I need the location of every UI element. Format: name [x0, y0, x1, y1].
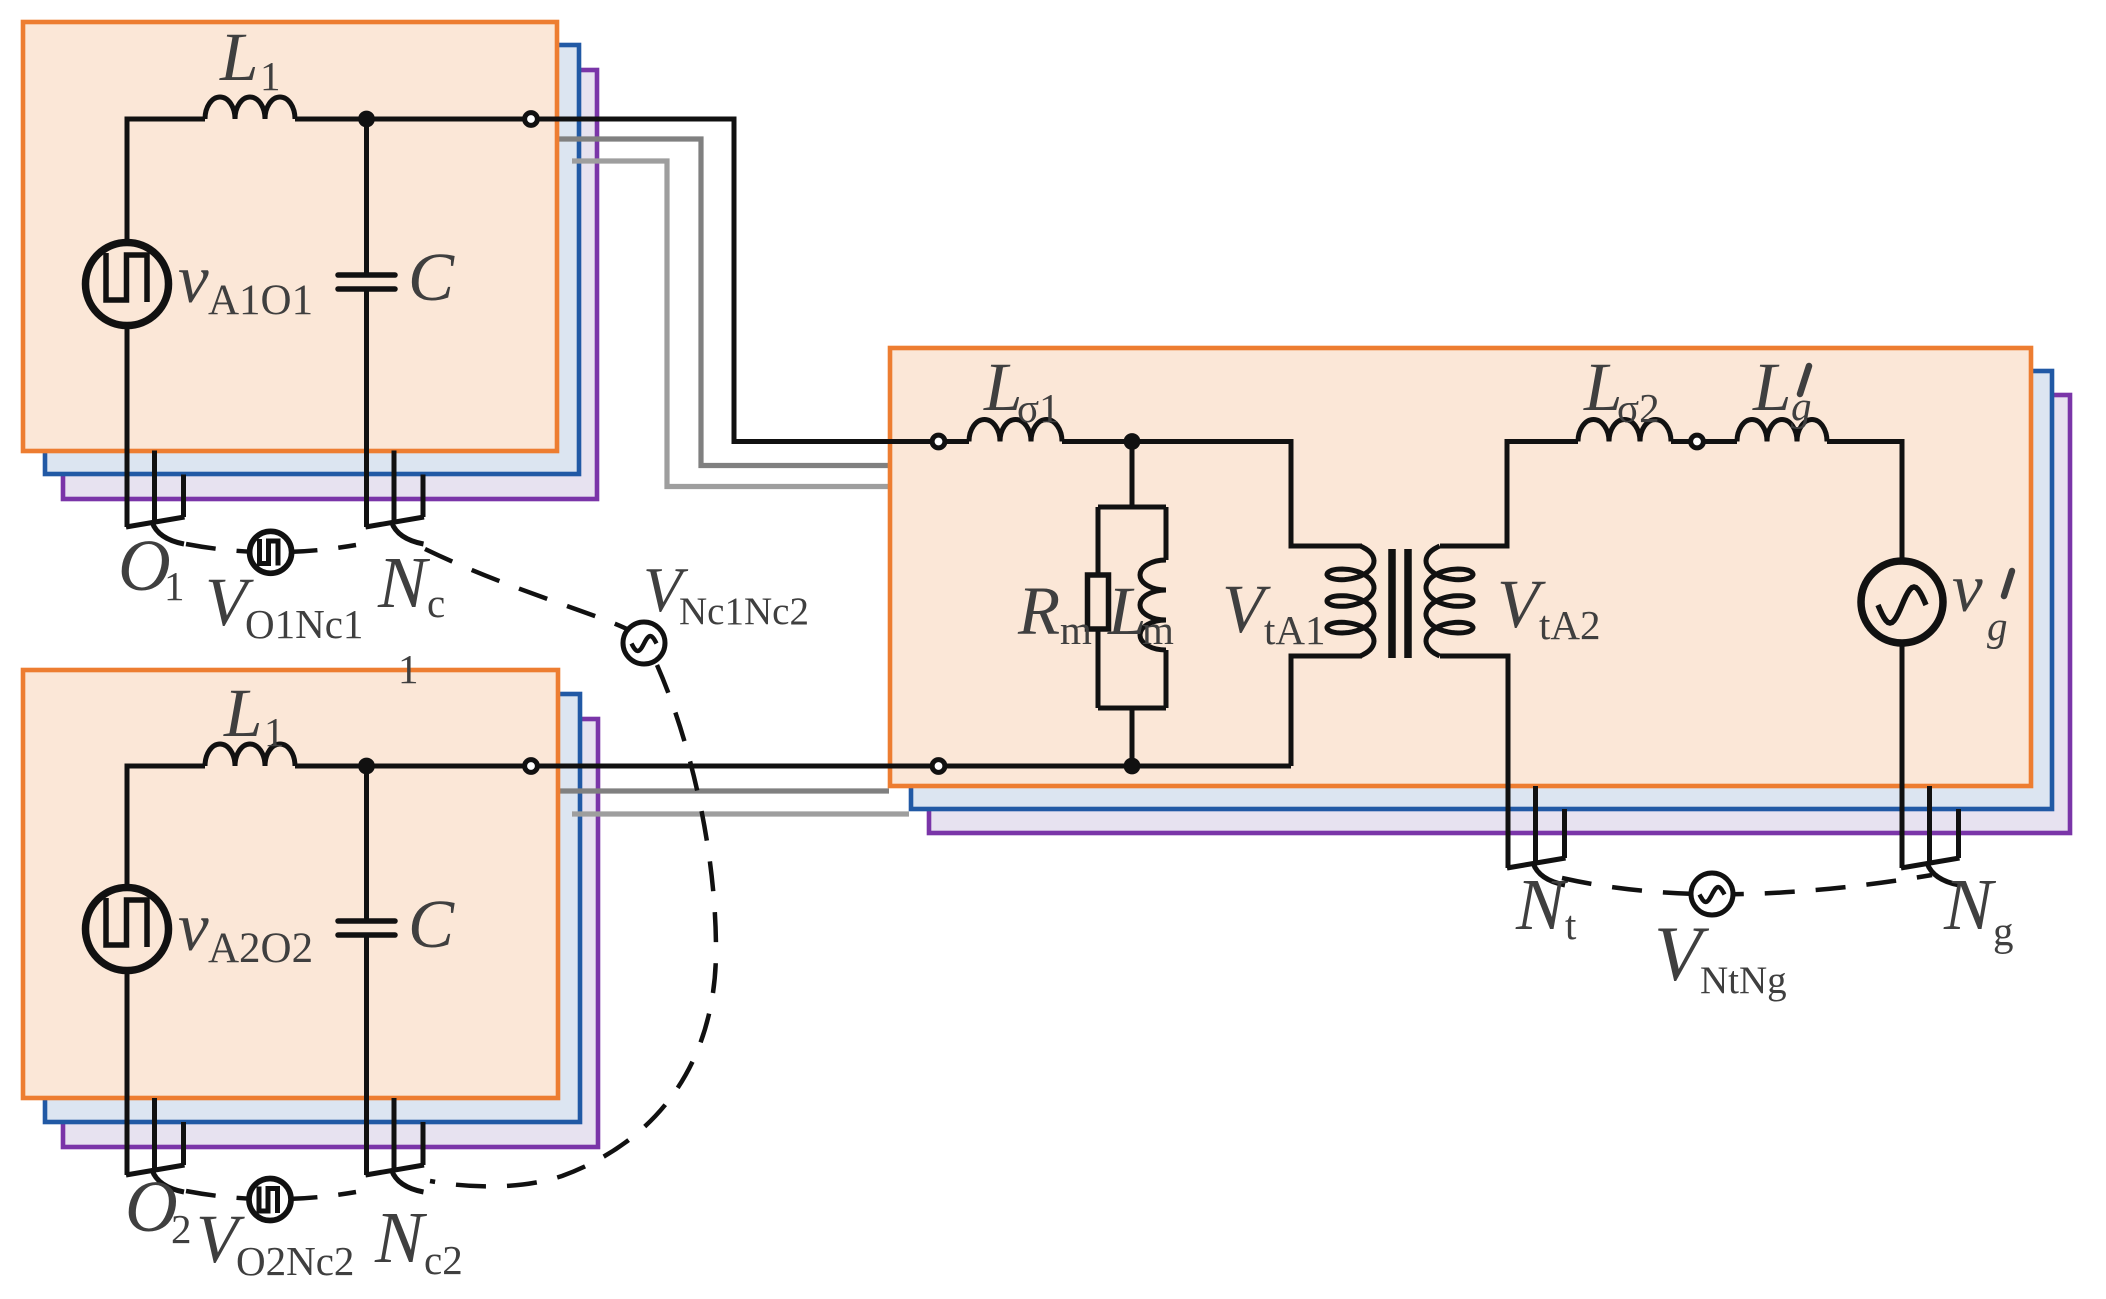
svg-text:g: g [1987, 603, 2008, 649]
node open terminal A2 (cell 2) [525, 760, 538, 773]
svg-text:O: O [125, 1166, 178, 1247]
inductor L1 (cell 1) [205, 97, 295, 119]
svg-text:c2: c2 [424, 1237, 463, 1283]
wire Rm/Lm block top bar [1098, 505, 1166, 510]
svg-text:L: L [223, 675, 262, 751]
wire gray B1 bundle (blue layer, bottom) [552, 788, 889, 793]
svg-text:O: O [118, 525, 171, 606]
cell 2 purple layer box [63, 719, 598, 1147]
transformer secondary winding VtA2 [1426, 546, 1473, 656]
node open terminal cell3 top-left [932, 435, 945, 448]
inductor Lm [1140, 560, 1166, 650]
node junction dot A1 (cell 1) [358, 111, 375, 128]
transformer core bars [1388, 549, 1396, 658]
wire transformer secondary top to Lsigma2 [1440, 442, 1578, 547]
source vA2O2 circle (square-wave source) [86, 888, 169, 971]
wire Lsigma1 to junction to transformer corner [1062, 442, 1362, 547]
wire transformer secondary bottom to Nt break [1440, 656, 1508, 868]
svg-text:1: 1 [260, 53, 281, 99]
dashed link Nc1 to Nc2 (long curve) [425, 549, 716, 1186]
wire Lsigma2 to open node [1671, 439, 1697, 444]
wire cell2 left vertical + top rail to L1 [127, 766, 205, 885]
wire junction down to Rm/Lm block [1130, 442, 1135, 508]
wire Rm left branch upper [1096, 507, 1101, 575]
source vg-prime circle (sine source) [1861, 561, 1943, 643]
svg-text:O1Nc1: O1Nc1 [245, 601, 363, 647]
wire bottom rail (cell 3) [945, 764, 1291, 769]
wire capacitor bottom to Nc2 break [364, 935, 369, 1175]
node O2 wire break mark [152, 1098, 157, 1172]
svg-text:c: c [427, 580, 445, 626]
wire gray B2 bundle (purple layer, bottom) [572, 811, 909, 816]
node junction dot (magnetizing branch bottom) [1124, 758, 1141, 775]
wire open node to Lg [1704, 439, 1737, 444]
inductor Lg-prime [1737, 420, 1827, 442]
svg-text:v: v [1952, 550, 1983, 626]
source vA2O2 square-wave glyph [106, 898, 147, 947]
wire gray A1 bundle (blue layer, top) [552, 139, 889, 466]
cell 2 blue layer box [45, 694, 580, 1122]
wire capacitor bottom to Nc1 break [364, 289, 369, 527]
svg-text:R: R [1017, 573, 1060, 649]
wire transformer primary bottom to rail [1291, 656, 1362, 766]
svg-text:L: L [1752, 349, 1791, 425]
svg-text:L: L [219, 19, 258, 95]
cell 1 orange box [23, 22, 557, 451]
node junction dot (magnetizing branch top) [1124, 433, 1141, 450]
svg-text:L: L [1107, 573, 1146, 649]
svg-text:1: 1 [398, 646, 419, 692]
node open terminal cell3 bottom-left [932, 760, 945, 773]
svg-text:2: 2 [171, 1206, 192, 1252]
source V_O2Nc2 square-wave glyph [259, 1187, 278, 1214]
wire A1 to transformer cell input (top bundle black) [537, 119, 930, 442]
wire source bottom to O2 break [125, 970, 130, 1176]
node Nc2 wire break mark [392, 1098, 397, 1172]
wire terminal to Lsigma1 [945, 439, 969, 444]
svg-text:Nc1Nc2: Nc1Nc2 [679, 590, 809, 633]
svg-text:N: N [374, 1197, 428, 1278]
cell 3 orange box [890, 348, 2031, 786]
inductor L1 (cell 2) [205, 744, 295, 766]
node junction dot A2 (cell 2) [358, 758, 375, 775]
svg-text:g: g [1993, 908, 2014, 954]
node Nt wire break mark [1533, 786, 1538, 865]
wire L1 to node (cell 2) [295, 764, 531, 769]
inductor Lsigma1 [969, 420, 1062, 442]
source V_O1Nc1 circle [250, 531, 292, 573]
cell 1 blue layer box [45, 45, 579, 474]
wire node to capacitor C (cell 1) [364, 119, 369, 275]
wire source bottom to O1 break [125, 325, 130, 528]
svg-text:N: N [1943, 864, 1997, 945]
svg-text:N: N [1515, 864, 1569, 945]
svg-text:A2O2: A2O2 [208, 925, 313, 972]
svg-text:1: 1 [264, 709, 285, 755]
capacitor C (cell 2) plates [338, 918, 395, 924]
svg-text:NtNg: NtNg [1700, 959, 1787, 1002]
svg-text:v: v [178, 889, 209, 965]
dashed link O1 to Nc1 [186, 544, 356, 552]
cell 3 blue layer box [911, 371, 2052, 809]
wire Lg to source vg top [1827, 442, 1902, 561]
svg-text:σ1: σ1 [1017, 385, 1060, 431]
wire Rm/Lm block bottom bar [1098, 706, 1166, 711]
svg-text:O2Nc2: O2Nc2 [236, 1238, 354, 1284]
node open terminal A1 (cell 1) [525, 113, 538, 126]
source vA1O1 circle (square-wave source) [86, 243, 169, 326]
wire source vg bottom to Ng break [1900, 644, 1905, 868]
label Lg prime tick [1800, 366, 1809, 394]
wire Lm right branch upper [1164, 507, 1169, 560]
dashed link Nt to Ng [1562, 875, 1932, 894]
svg-text:σ2: σ2 [1617, 385, 1660, 431]
cell 1 purple layer box [63, 70, 597, 499]
node Nc1 wire break mark [392, 451, 397, 525]
wire gray A2 bundle (purple layer, top) [572, 161, 889, 487]
source V_O2Nc2 circle [249, 1179, 291, 1221]
node Ng wire break mark [1927, 786, 1932, 865]
svg-text:m: m [1142, 607, 1174, 653]
svg-text:v: v [178, 241, 209, 317]
resistor Rm [1088, 575, 1109, 629]
source V_Nc1Nc2 circle (sine) [623, 622, 665, 664]
svg-text:tA2: tA2 [1539, 602, 1601, 648]
svg-text:m: m [1060, 607, 1092, 653]
transformer primary winding VtA1 [1327, 546, 1374, 656]
source vg-prime sine glyph [1878, 587, 1926, 623]
svg-text:A1O1: A1O1 [208, 277, 313, 324]
label vg prime tick [2004, 571, 2012, 596]
wire node to capacitor C (cell 2) [364, 766, 369, 921]
wire L1 to node (cell 1) [295, 117, 531, 122]
svg-text:1: 1 [164, 563, 185, 609]
inductor Lsigma2 [1578, 420, 1671, 442]
dashed link O2 to Nc2 [186, 1191, 356, 1199]
wire Lm right branch lower [1164, 650, 1169, 708]
svg-text:C: C [408, 239, 455, 315]
source V_O1Nc1 square-wave glyph [260, 539, 279, 566]
svg-text:C: C [408, 886, 455, 962]
cell 2 orange box [23, 670, 558, 1098]
wire cell1 left vertical + top rail to L1 [127, 119, 205, 240]
node open terminal between Lsigma2 and Lg [1691, 435, 1704, 448]
source V_NtNg sine glyph [1700, 887, 1725, 902]
cell 3 purple layer box [929, 395, 2070, 833]
capacitor C (cell 1) plates [338, 272, 395, 278]
svg-text:t: t [1565, 902, 1577, 948]
wire Rm/Lm block to bottom rail [1130, 708, 1135, 766]
source V_NtNg circle (sine) [1691, 873, 1733, 915]
wire A2 to transformer cell bottom rail (black) [537, 764, 930, 769]
svg-text:N: N [377, 542, 431, 623]
node O1 wire break mark [152, 451, 157, 525]
source vA1O1 square-wave glyph [106, 253, 147, 302]
source V_Nc1Nc2 sine glyph [632, 636, 657, 651]
svg-text:tA1: tA1 [1264, 607, 1326, 653]
wire Rm left branch lower [1096, 629, 1101, 708]
